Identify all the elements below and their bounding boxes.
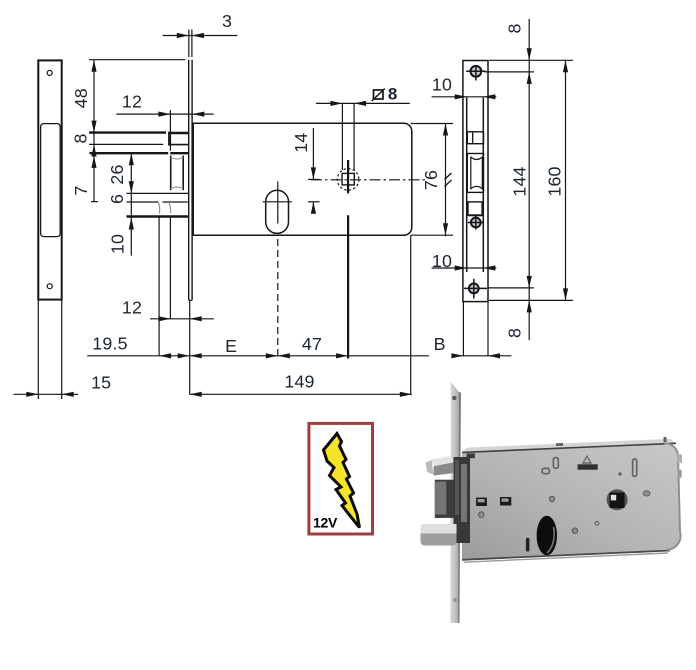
dim row 15 149 [14,393,79,395]
dim 76 column [445,124,447,237]
row 47 arrows [278,353,290,358]
photo circular recess with square hole [607,489,628,510]
deadbolt top line [90,152,169,154]
dim 12 bottom arrows [158,316,170,321]
latch lines [89,131,166,133]
oval cross lines [263,201,292,203]
cylinder oval [266,190,289,233]
hole center thick vertical [347,160,349,193]
dim 8 top right arrows [527,48,532,60]
dim 3 line [163,35,238,37]
dim 12 top arrows [158,112,170,117]
screw hole middle [471,218,481,228]
dim 10 right top arrows [455,94,467,99]
svg-text:8: 8 [505,23,525,33]
svg-text:144: 144 [510,166,530,196]
svg-text:10: 10 [108,234,128,254]
deadbolt roller side view [170,156,172,191]
svg-text:8: 8 [505,328,525,338]
faceplate edge extensions below [462,302,464,357]
dim 10 right top [432,96,497,98]
hole inscribed square [342,173,354,185]
svg-text:26: 26 [107,164,127,184]
row 19.5 arrows [159,353,171,358]
lower window front [468,202,482,215]
dim 26-6-10 column [130,153,132,256]
svg-text:B: B [434,334,446,354]
dim 14 column [312,128,314,179]
pocket bottom thick line [127,215,189,218]
dim 10 right bottom [432,267,497,269]
photo deadbolt [421,524,457,546]
dim 12 top line [116,113,213,115]
svg-text:14: 14 [291,133,311,153]
svg-text:7: 7 [71,185,91,195]
screw hole bottom [469,284,479,294]
dim 8 left bottom arrow [91,145,96,157]
faceplate edge view [188,60,190,301]
dim 26 arrows [129,153,134,165]
row E arrows [190,353,202,358]
dim 10 left arrow [129,218,134,230]
dim 8 bottom right arrow [527,300,532,312]
strike plate outer [38,60,61,299]
dim 160 arrows [563,60,568,72]
dim o8 line [316,102,410,104]
latch extension vertical [169,110,171,151]
faceplate edge-view upper extension [188,30,190,58]
photo upper latch [431,456,454,466]
row B arrows [451,353,463,358]
oval center dashed extension [277,239,279,356]
dim 149 arrows [190,392,202,397]
lightning bolt [324,434,360,528]
svg-text:8: 8 [71,133,91,143]
pocket arcs [158,202,160,214]
badge border [309,423,373,534]
roller window front [467,154,483,193]
svg-text:12: 12 [122,91,142,111]
photo top band marks [556,443,563,446]
strike plate screw hole top [47,70,52,75]
screw hole top [471,66,482,77]
right dims: 8 144 8 column [528,19,530,340]
svg-text:48: 48 [71,88,91,108]
svg-text:19.5: 19.5 [92,334,127,354]
dim o8 arrows [330,101,342,106]
dim row 19.5 E 47 B [87,355,429,357]
strike plate screw hole bottom [47,284,52,289]
photo faceplate strip [450,382,461,623]
photo panel small marks [476,498,487,506]
pocket extension verticals [158,217,160,356]
svg-text:3: 3 [222,11,232,31]
svg-text:6: 6 [107,194,127,204]
label o8 [372,89,385,101]
extension lines right [489,59,573,61]
faceplate bottom extension [189,300,191,394]
svg-text:12: 12 [122,297,142,317]
photo right edge tabs [678,454,683,463]
dim 3 arrows [177,33,189,38]
svg-text:76: 76 [421,170,441,190]
svg-text:15: 15 [91,373,111,393]
dim 144 bottom arrow [527,276,532,288]
deadbolt bottom line [126,192,188,194]
photo latch dark block [435,480,454,518]
hole circle dashed [337,169,359,191]
dim 7 bottom arrow [91,156,96,168]
dim 48 arrows [91,60,96,72]
lock body side view [193,123,412,235]
pocket top line [126,201,158,203]
photo body right edge shade [664,443,681,549]
photo keyhole oval [537,516,557,556]
svg-text:47: 47 [302,334,322,354]
dim 160 column [565,60,567,300]
strike plate lower extension lines [37,300,39,399]
photo body top face [462,439,676,453]
photo body bottom edge [462,551,670,560]
dim 76 arrows [443,124,448,136]
faceplate channel [466,98,468,273]
body right extension verticals [410,235,412,394]
latch window front [467,132,483,144]
photo lock body [462,443,681,560]
dim 48-8-7 column [93,60,95,202]
svg-text:149: 149 [284,372,314,392]
hole edge extension lines [341,103,343,170]
strike plate inner recess [41,124,61,237]
svg-text:10: 10 [432,251,452,271]
dim 10 right bottom arrows [455,265,467,270]
body centerline dash-dot [311,179,427,181]
photo left dark cavity [454,457,471,543]
dim 15 arrows [26,392,38,397]
svg-text:8: 8 [388,84,398,103]
svg-text:10: 10 [432,74,452,94]
dim 12 bottom line [150,318,214,320]
svg-text:160: 160 [545,166,565,196]
svg-text:E: E [225,336,237,356]
faceplate front view outer [463,61,488,302]
dim 14 arrows [311,167,316,179]
svg-text:12V: 12V [313,515,338,531]
latch face bar [168,132,171,146]
